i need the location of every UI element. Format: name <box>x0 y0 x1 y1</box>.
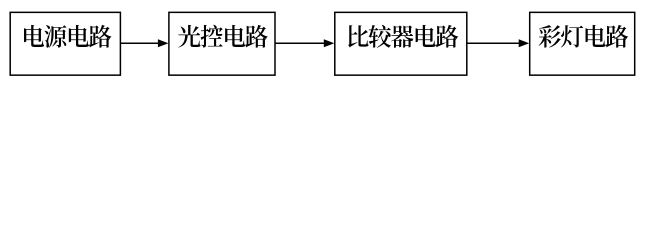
arrow 1 (wire with arrowhead) <box>120 42 160 44</box>
arrow 2 (wire with arrowhead) <box>275 42 326 44</box>
box2 light-control 光控电路 <box>169 12 275 75</box>
label 电源电路 <box>24 25 111 48</box>
box4 colored-lamp 彩灯电路 <box>530 12 635 75</box>
box3 comparator 比较器电路 <box>335 12 467 75</box>
label 彩灯电路 <box>539 25 629 48</box>
label 比较器电路 <box>348 25 458 48</box>
arrow 3 (wire with arrowhead) <box>467 42 521 44</box>
label 光控电路 <box>178 25 268 48</box>
box1 power-supply 电源电路 <box>10 12 120 75</box>
